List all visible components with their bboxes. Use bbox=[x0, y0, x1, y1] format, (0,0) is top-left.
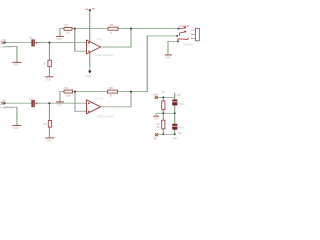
svg-text:G1: G1 bbox=[173, 136, 177, 140]
svg-text:GND: GND bbox=[165, 56, 171, 59]
svg-text:C3: C3 bbox=[177, 93, 181, 97]
svg-text:PJ302M: PJ302M bbox=[183, 43, 193, 47]
svg-text:-9V: -9V bbox=[153, 136, 157, 140]
svg-text:R3: R3 bbox=[44, 122, 48, 126]
svg-text:R6: R6 bbox=[109, 86, 113, 90]
svg-text:LEFTIN: LEFTIN bbox=[1, 45, 12, 49]
svg-text:OPA2134PA: OPA2134PA bbox=[97, 115, 114, 119]
svg-text:C2: C2 bbox=[29, 96, 33, 100]
svg-text:100u: 100u bbox=[178, 125, 184, 129]
svg-text:C1: C1 bbox=[29, 36, 33, 40]
svg-text:+9V: +9V bbox=[153, 93, 158, 97]
svg-text:R5: R5 bbox=[110, 23, 114, 27]
svg-text:R2: R2 bbox=[65, 23, 69, 27]
svg-text:C4: C4 bbox=[178, 131, 182, 135]
svg-text:R1: R1 bbox=[43, 62, 47, 66]
svg-text:4k7: 4k7 bbox=[162, 109, 167, 113]
svg-text:GND: GND bbox=[46, 78, 52, 81]
svg-text:100k: 100k bbox=[65, 31, 71, 34]
svg-text:100k: 100k bbox=[65, 94, 71, 97]
svg-text:R7: R7 bbox=[162, 90, 166, 94]
svg-text:R4: R4 bbox=[65, 86, 69, 90]
svg-text:OPA2134PA: OPA2134PA bbox=[96, 53, 113, 57]
svg-text:GND: GND bbox=[154, 118, 160, 121]
svg-text:100u: 100u bbox=[178, 102, 184, 106]
svg-text:IC1B: IC1B bbox=[96, 96, 103, 100]
svg-text:GND: GND bbox=[57, 38, 63, 41]
svg-text:X2: X2 bbox=[2, 38, 6, 42]
svg-text:GND: GND bbox=[13, 127, 19, 130]
svg-text:GND: GND bbox=[13, 64, 19, 67]
svg-text:IC1A: IC1A bbox=[96, 37, 103, 41]
svg-text:VEE: VEE bbox=[86, 74, 91, 78]
svg-text:X3: X3 bbox=[2, 99, 6, 103]
svg-text:RIGHTIN: RIGHTIN bbox=[1, 105, 14, 109]
svg-text:PJ302M: PJ302M bbox=[179, 24, 189, 28]
svg-text:GND: GND bbox=[57, 103, 63, 106]
svg-text:GND: GND bbox=[46, 139, 52, 142]
svg-text:4k7: 4k7 bbox=[156, 125, 161, 129]
